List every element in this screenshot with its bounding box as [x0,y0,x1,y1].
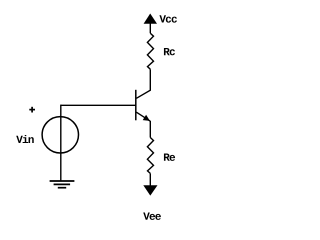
wire Vcc to Rc [149,24,151,34]
resistor Rc [147,33,153,69]
resistor Re [147,138,153,174]
ground [50,180,75,182]
emitter lead with arrow [136,112,150,121]
transistor Q1 base bar [135,90,137,121]
source V1 circle [42,117,78,153]
label Re [164,154,175,161]
label Vee [143,213,161,220]
label + polarity [29,109,35,111]
label Vcc [159,15,177,22]
power symbol Vee [143,185,157,195]
power symbol Vcc [144,14,157,24]
wire source vertical [60,105,62,181]
wire base [61,104,136,106]
wire emitter to Re [149,121,151,138]
label Rc [164,48,175,55]
wire Re to Vee arrow [149,173,151,186]
wire Rc to collector [136,69,150,98]
label Vin [16,135,34,143]
